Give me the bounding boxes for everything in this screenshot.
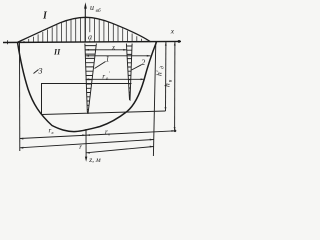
svg-text:а: а xyxy=(88,33,92,42)
svg-text:в: в xyxy=(52,130,54,135)
svg-text:II: II xyxy=(53,48,61,57)
svg-text:x: x xyxy=(170,27,175,36)
svg-text:u: u xyxy=(90,3,94,12)
svg-text:вб: вб xyxy=(96,7,101,14)
svg-text:2: 2 xyxy=(141,58,145,67)
svg-text:1: 1 xyxy=(106,55,110,64)
svg-text:h′: h′ xyxy=(154,70,163,76)
svg-text:z, м: z, м xyxy=(88,155,101,164)
svg-text:r: r xyxy=(79,143,82,151)
svg-text:3: 3 xyxy=(38,67,43,76)
svg-text:h: h xyxy=(162,83,171,87)
